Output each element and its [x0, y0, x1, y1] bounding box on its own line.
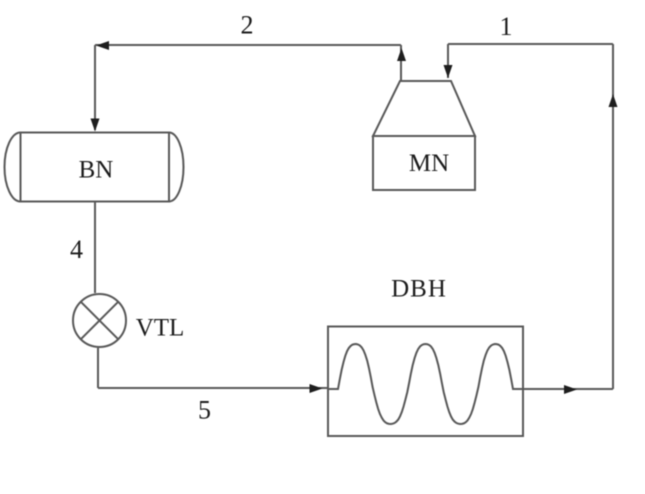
- svg-text:DBH: DBH: [391, 276, 447, 303]
- wire DBH outlet horizontal: [523, 388, 613, 390]
- arrow right into DBH: [310, 384, 323, 393]
- svg-text:BN: BN: [79, 157, 114, 184]
- svg-text:MN: MN: [409, 150, 449, 177]
- svg-text:4: 4: [70, 235, 83, 264]
- arrowheads: [91, 41, 618, 394]
- wire stream2 horizontal: [95, 44, 401, 46]
- wire stream1 drop into MN: [447, 44, 449, 78]
- arrow up right riser: [609, 94, 618, 107]
- svg-text:2: 2: [241, 11, 254, 40]
- wire stream2 vertical drop to BN: [94, 45, 96, 130]
- svg-text:5: 5: [198, 396, 211, 425]
- arrow right DBH outlet: [564, 385, 577, 394]
- wire right riser: [612, 44, 614, 389]
- wire stream5 horizontal to DBH: [98, 387, 328, 389]
- compressor MN: [373, 81, 475, 190]
- valve VTL: [73, 294, 126, 347]
- wire riser from MN to stream2: [400, 45, 402, 81]
- wire stream4 BN to VTL: [94, 202, 96, 293]
- wire VTL down: [97, 348, 99, 388]
- arrow down into MN: [444, 65, 453, 78]
- arrow up riser from MN: [397, 48, 406, 61]
- svg-text:VTL: VTL: [136, 315, 185, 342]
- wire stream1 horizontal: [448, 43, 613, 45]
- vessel BN: [5, 133, 184, 202]
- svg-text:1: 1: [500, 12, 513, 41]
- heat exchanger DBH: [328, 327, 523, 437]
- coil: [328, 344, 523, 424]
- arrow down into BN: [91, 119, 100, 132]
- arrow left end stream2: [96, 41, 109, 50]
